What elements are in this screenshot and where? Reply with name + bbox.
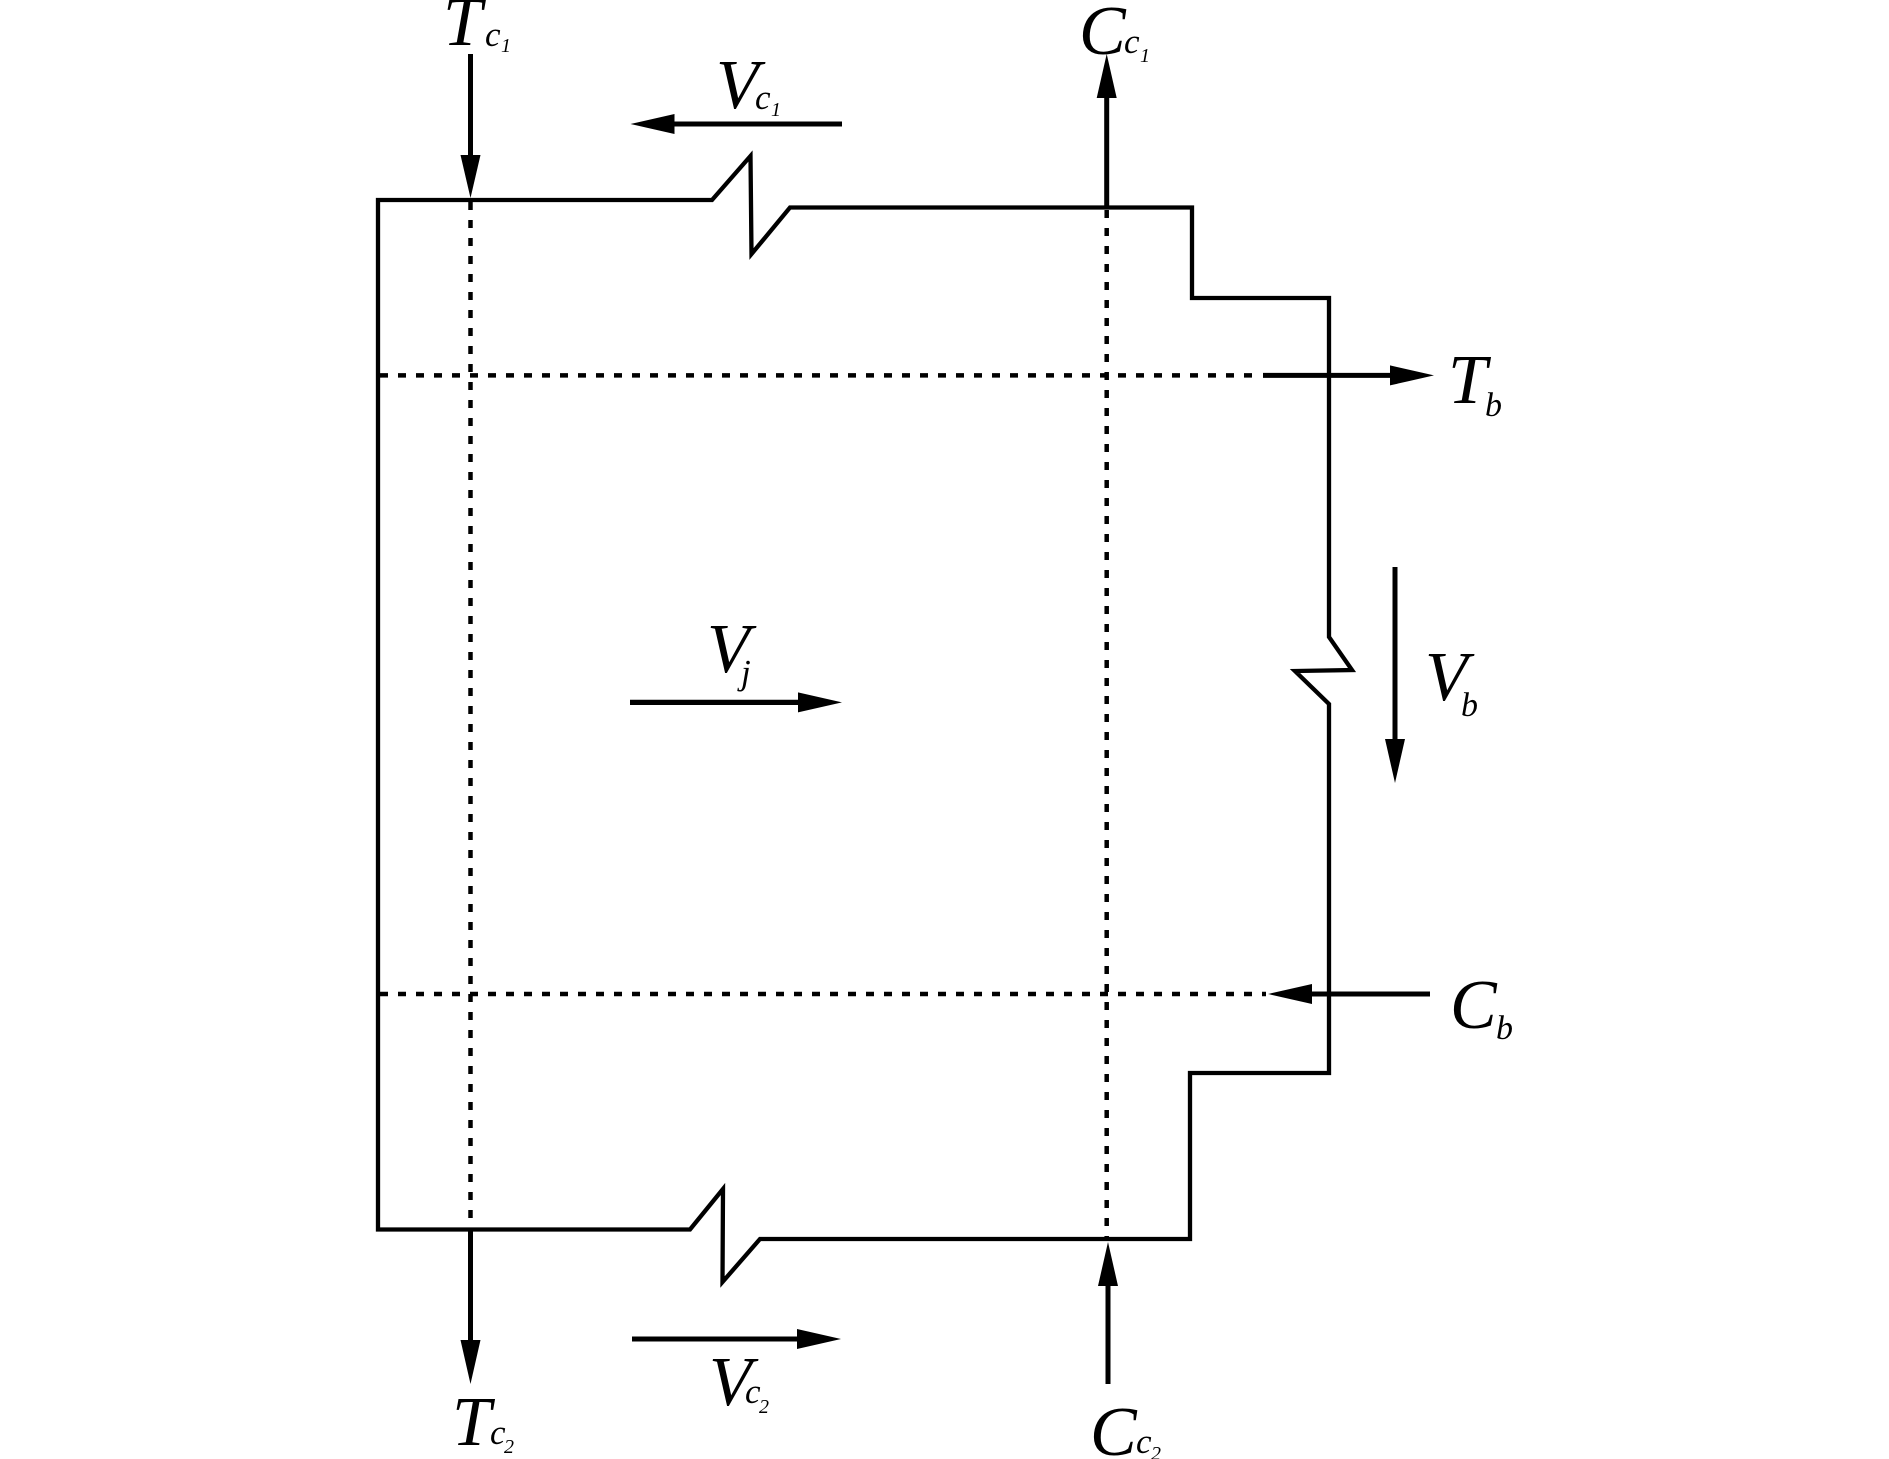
svg-text:2: 2 (504, 1436, 514, 1458)
svg-text:C: C (1090, 1394, 1138, 1459)
svg-text:b: b (1461, 687, 1478, 724)
svg-text:T: T (443, 0, 487, 61)
svg-text:2: 2 (759, 1396, 769, 1418)
label V_c1 (716, 47, 781, 124)
label C_c2 (1090, 1394, 1161, 1459)
arrow V_c1 (leftward above top edge) (631, 114, 843, 134)
svg-text:c: c (485, 15, 501, 54)
svg-text:2: 2 (1151, 1443, 1161, 1459)
label T_c2 (452, 1384, 514, 1459)
arrow C_c2 (upward into bottom edge) (1098, 1242, 1118, 1384)
label C_c1 (1079, 0, 1150, 70)
control volume outline with break marks (378, 156, 1352, 1282)
svg-text:c: c (1124, 22, 1140, 61)
dotted vertical section line left (x=470) (468, 202, 473, 1228)
svg-text:C: C (1079, 0, 1127, 70)
label C_b (1450, 967, 1513, 1047)
dotted vertical section line right (x=1107) (1104, 210, 1109, 1237)
dotted horizontal section line lower (y=994) (380, 992, 1266, 997)
svg-text:1: 1 (771, 99, 781, 121)
dotted horizontal section line upper (y=375) (380, 373, 1256, 378)
arrow T_b (rightward through right edge) (1263, 365, 1434, 385)
svg-text:1: 1 (501, 35, 511, 57)
svg-text:c: c (1136, 1422, 1152, 1459)
label V_j (707, 611, 757, 692)
label T_c1 (443, 0, 511, 61)
arrow C_c1 (upward out of top edge) (1097, 54, 1117, 206)
svg-text:C: C (1450, 967, 1498, 1044)
arrow V_j (rightward in centre) (630, 692, 842, 712)
label T_b (1448, 342, 1502, 424)
arrow C_b (leftward into right edge) (1268, 984, 1430, 1004)
svg-text:b: b (1496, 1010, 1513, 1047)
label V_b (1425, 639, 1478, 724)
arrow T_c2 (downward out of bottom edge) (461, 1230, 481, 1384)
label V_c2 (709, 1344, 769, 1421)
arrow V_c2 (rightward below bottom edge) (632, 1329, 841, 1349)
svg-text:b: b (1485, 387, 1502, 424)
svg-text:c: c (755, 78, 771, 117)
arrow V_b (downward along right edge) (1385, 567, 1405, 783)
svg-text:1: 1 (1140, 45, 1150, 67)
arrow T_c1 (downward into top edge) (461, 54, 481, 198)
